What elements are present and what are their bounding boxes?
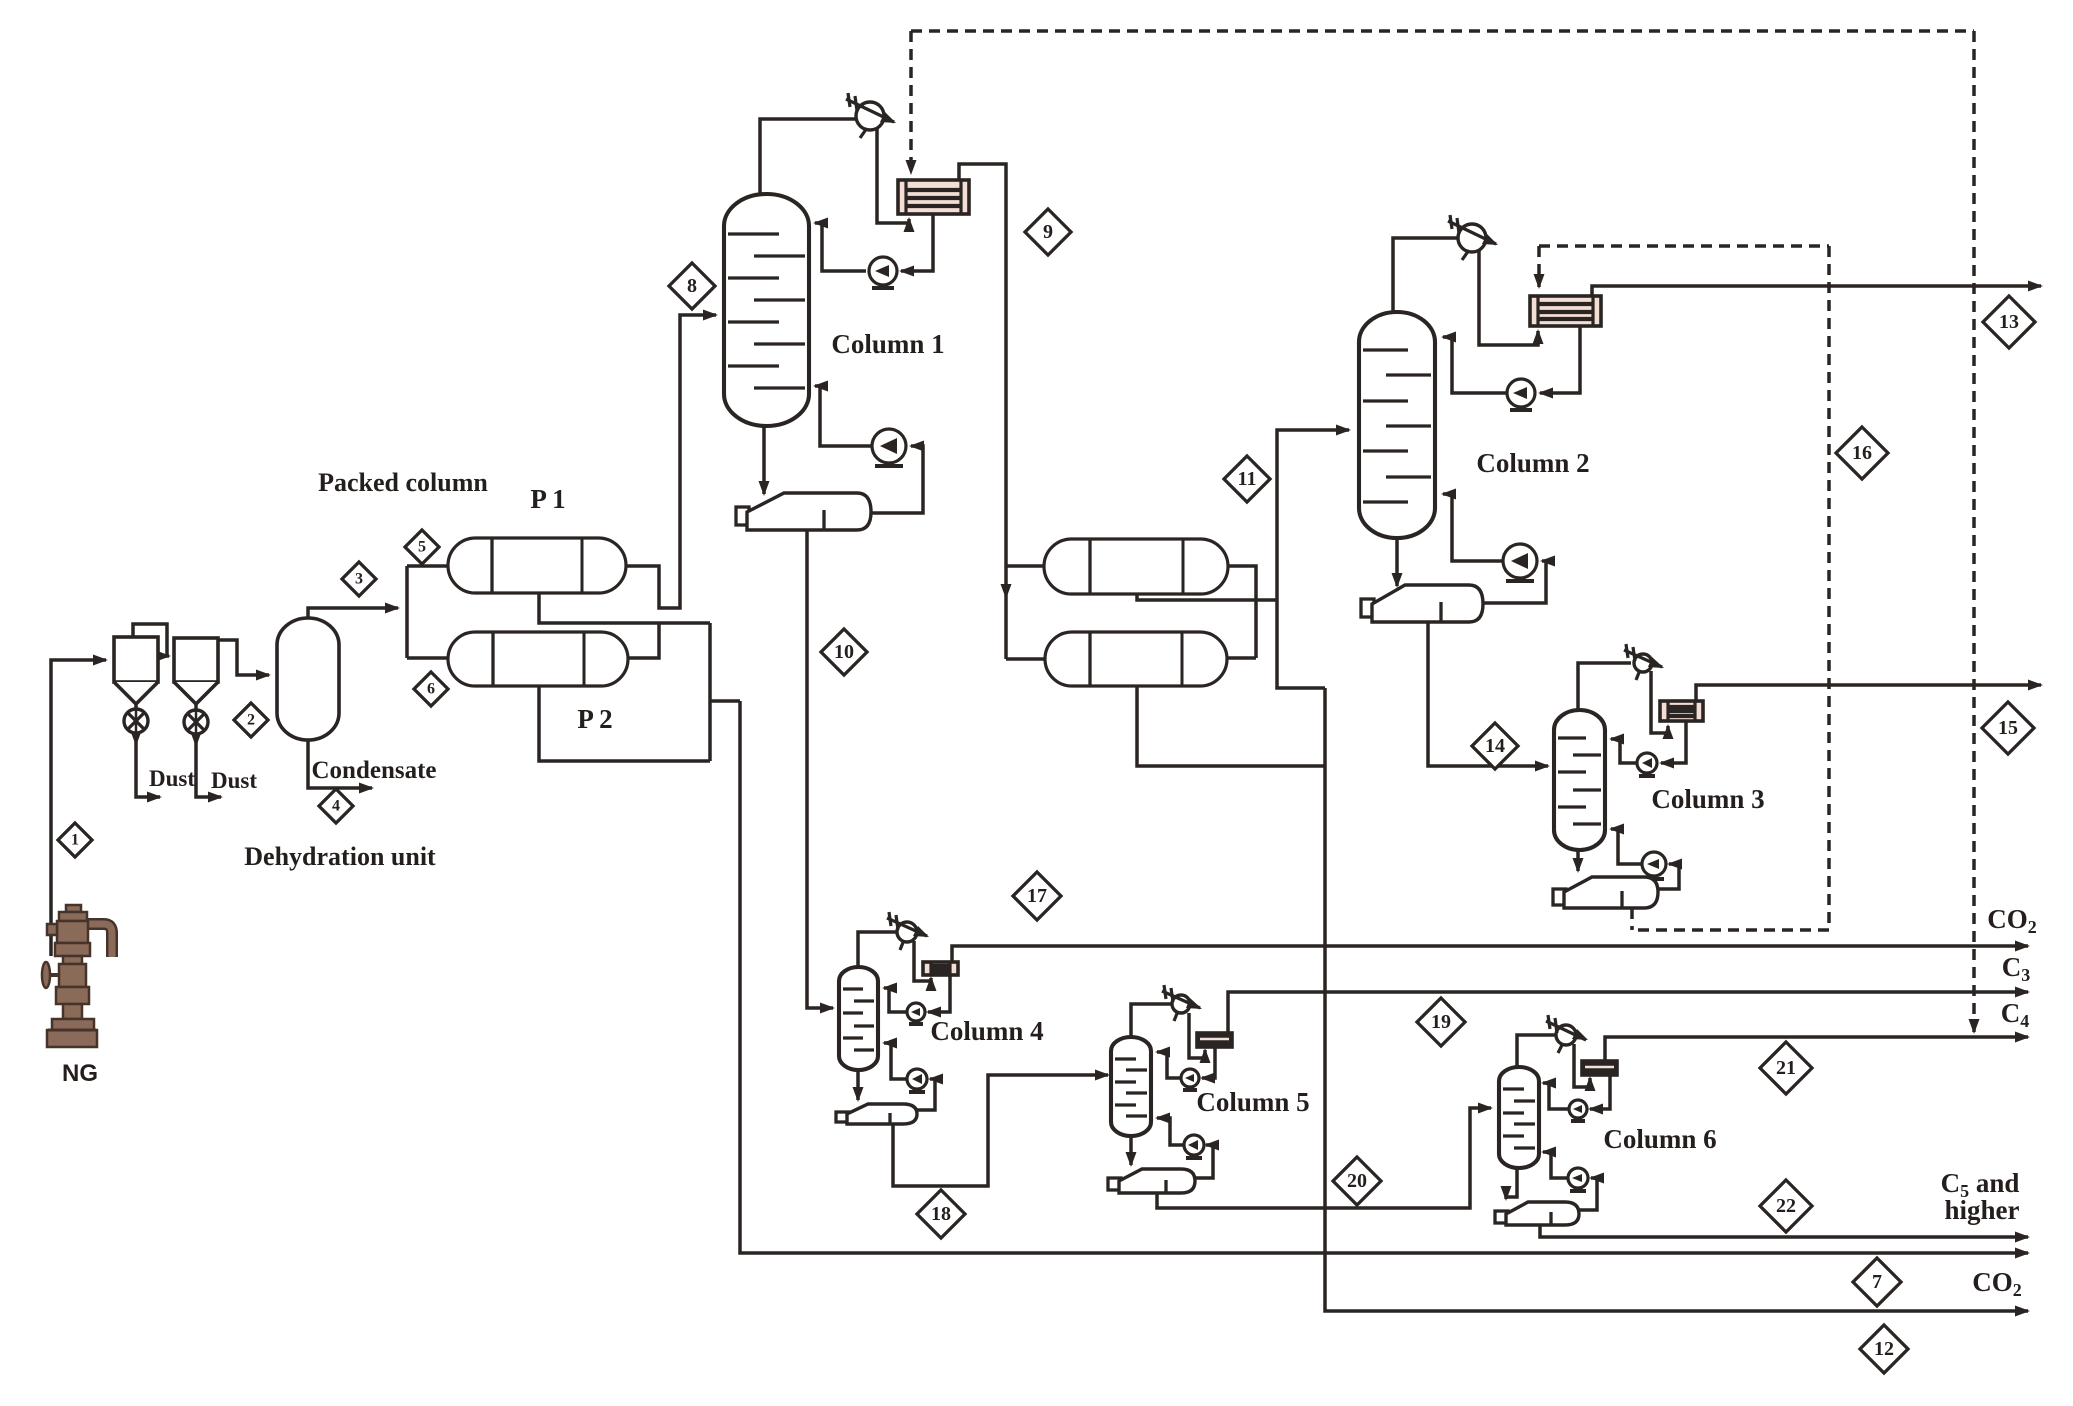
wire stream 22 C5 line [1540, 1225, 2030, 1243]
svg-text:Packed column: Packed column [318, 468, 488, 497]
wire column4 overhead to cooler [858, 932, 897, 967]
node stream 12 label [1860, 1325, 1908, 1373]
wire stream 19 C3 line [1228, 987, 2030, 1034]
wire stream 18 to column5 [893, 1070, 1110, 1187]
wire stream 14 to column3 [1428, 622, 1550, 772]
wire reboiler5 return to column [1155, 1113, 1184, 1146]
wire condenser1 liquid to reflux pump [899, 214, 933, 277]
wire E4 inlet [1006, 657, 1045, 661]
node stream 15 label [1982, 702, 2034, 754]
reboiler column3 [1553, 877, 1658, 908]
air cooler column4 [887, 912, 929, 950]
heat exchanger E4 [1045, 632, 1227, 686]
svg-text:5: 5 [418, 539, 426, 556]
svg-text:NG: NG [62, 1060, 98, 1087]
reboiler pump column5 [1184, 1135, 1204, 1158]
wire P2 inlet [407, 656, 448, 660]
wire cooler1 outlet to condenser [877, 129, 915, 232]
column Column 5 vessel [1111, 1037, 1151, 1136]
dust cyclone 1 [114, 637, 158, 704]
wire condenser1 refrigerant dashed [906, 31, 917, 175]
wire cyclone1 to cyclone2 crossover [133, 624, 171, 662]
wire stream 21 C4 line [1605, 1032, 2030, 1062]
air cooler column6 [1546, 1015, 1588, 1053]
node stream 13 label [1983, 296, 2035, 348]
wire P2 outlet riser [626, 623, 659, 658]
dust valve 1 [124, 709, 148, 733]
dust cyclone 2 [174, 638, 218, 704]
svg-text:22: 22 [1776, 1195, 1796, 1217]
node stream 7 label [1853, 1258, 1901, 1306]
wire stream 11 riser to column2 [1277, 425, 1351, 601]
node stream 21 label [1760, 1042, 1812, 1094]
svg-text:Dust: Dust [211, 768, 257, 793]
svg-text:19: 19 [1431, 1011, 1451, 1033]
svg-text:Column 2: Column 2 [1476, 448, 1589, 478]
wire P1 outlet to column1 riser [626, 310, 718, 609]
reflux pump column4 [907, 1003, 925, 1024]
svg-text:P 1: P 1 [530, 484, 565, 514]
svg-text:Dehydration unit: Dehydration unit [244, 842, 436, 871]
wire condenser2 refrigerant dashed [1534, 246, 1545, 289]
wire E3 inlet [1006, 564, 1044, 568]
reflux pump column3 [1637, 753, 1657, 776]
wire cyclone1 valve stem [134, 704, 138, 710]
node stream 6 label [414, 672, 448, 706]
node stream 22 label [1760, 1180, 1812, 1232]
wire condenser6 liquid to pump [1588, 1075, 1610, 1115]
condenser column1 [898, 180, 969, 214]
wire E4 outlet [1227, 656, 1256, 660]
reboiler column2 [1361, 585, 1483, 622]
wire condenser4 liquid to pump [926, 975, 950, 1018]
wire stream 12 upper drop [1277, 600, 1325, 688]
wire E4 shell drain [1137, 686, 1325, 766]
condenser column3 [1660, 701, 1703, 721]
svg-text:7: 7 [1872, 1271, 1882, 1293]
svg-text:18: 18 [931, 1203, 951, 1225]
air cooler column3 [1624, 644, 1664, 680]
column Column 4 vessel [839, 967, 878, 1070]
svg-text:16: 16 [1852, 442, 1872, 464]
wire dashed refrigerant header [911, 29, 1974, 33]
wire condenser2 liquid to pump [1538, 326, 1580, 399]
reboiler pump column2 [1503, 544, 1537, 581]
svg-text:4: 4 [332, 798, 340, 815]
wire reboiler2 vapor to pump [1483, 556, 1555, 604]
wire column1 bottoms to reboiler [759, 426, 770, 496]
wire column3 overhead to cooler [1578, 663, 1631, 710]
wire reboiler3 vapor to pump [1658, 859, 1682, 890]
svg-text:21: 21 [1776, 1057, 1796, 1079]
wire NG riser to cyclone 1 inlet [51, 655, 108, 957]
node stream 19 label [1417, 998, 1465, 1046]
wire stream 7 drop [740, 701, 2030, 1259]
svg-text:1: 1 [71, 832, 79, 849]
heat exchanger E3 [1044, 539, 1228, 594]
reboiler column1 [736, 493, 871, 530]
svg-text:3: 3 [355, 571, 363, 588]
reflux pump column6 [1569, 1100, 1587, 1121]
air cooler column1 [846, 93, 896, 138]
svg-text:Column 3: Column 3 [1651, 784, 1764, 814]
svg-text:12: 12 [1874, 1338, 1894, 1360]
wire column5 overhead to cooler [1131, 1004, 1172, 1037]
wire reboiler3 return to column [1609, 824, 1641, 865]
column Column 2 vessel [1359, 312, 1435, 538]
wire cyclone2 valve stem [194, 704, 198, 711]
wire stream 15 line [1696, 680, 2043, 702]
svg-text:Column 5: Column 5 [1196, 1087, 1309, 1117]
wire column6 overhead to cooler [1517, 1035, 1556, 1067]
wire condenser3 liquid to pump [1659, 721, 1686, 769]
wire reflux3 into column [1609, 734, 1637, 764]
reflux pump column2 [1507, 379, 1535, 410]
wire reboiler4 vapor to pump [917, 1074, 943, 1111]
reboiler column4 [836, 1104, 917, 1124]
wire reboiler1 vapor to pump [871, 441, 924, 514]
svg-text:20: 20 [1347, 1170, 1367, 1192]
wire cyclone1 dust drop [131, 731, 142, 746]
wire reboiler6 vapor to pump [1579, 1173, 1604, 1211]
wire split header P1/P2 [405, 566, 409, 658]
wire column6 bottoms to reboiler [1501, 1168, 1518, 1201]
wire dashed 16 from reboiler3 [1630, 908, 1634, 930]
wire reboiler6 return to column [1541, 1147, 1568, 1179]
svg-text:9: 9 [1043, 221, 1053, 243]
wire stream 10 drop to column4 [807, 530, 835, 1014]
svg-text:Column 6: Column 6 [1603, 1124, 1716, 1154]
wire column4 bottoms to reboiler [853, 1070, 864, 1102]
reboiler pump column3 [1642, 852, 1666, 879]
svg-text:2: 2 [247, 712, 255, 729]
wire cyclone2 outlet to dehydrator [218, 640, 271, 681]
wire P1 shell drain crosslink [539, 593, 710, 623]
wire reboiler2 return to column [1441, 489, 1503, 562]
heat exchanger P1 [448, 538, 626, 593]
wire reboiler1 return to column [813, 381, 872, 447]
wire cooler2 outlet to condenser [1479, 249, 1544, 345]
wire cyclone2 dust elbow [196, 745, 223, 803]
wire cooler5 outlet to condenser [1189, 1013, 1211, 1063]
wire condenser5 liquid to pump [1200, 1047, 1215, 1084]
reboiler column5 [1108, 1169, 1195, 1193]
wire reflux1 into column [813, 218, 866, 272]
reboiler pump column1 [872, 429, 906, 466]
wire stream 13 line [1592, 281, 2043, 297]
wire reflux4 into column [882, 983, 907, 1013]
node stream 18 label [917, 1190, 965, 1238]
air cooler column2 [1448, 215, 1498, 260]
heat exchanger P2 [448, 632, 628, 686]
node stream 10 label [821, 629, 867, 675]
node stream 17 label [1013, 872, 1061, 920]
node stream 4 label [319, 789, 353, 823]
svg-text:P 2: P 2 [577, 704, 612, 734]
svg-text:15: 15 [1998, 717, 2018, 739]
condenser column4 [923, 962, 958, 975]
wire column1 overhead to cooler [760, 119, 857, 194]
column Column 1 vessel [724, 194, 809, 426]
svg-text:Dust: Dust [149, 766, 195, 791]
svg-text:8: 8 [687, 275, 697, 297]
wire reboiler4 return to column [882, 1038, 907, 1080]
svg-text:Column 4: Column 4 [930, 1016, 1043, 1046]
wire column2 overhead to cooler [1393, 238, 1459, 312]
wire E3 shell drain crosslink [1137, 594, 1277, 600]
svg-text:13: 13 [1999, 311, 2019, 333]
wire stream 9 tail [1004, 597, 1008, 659]
wire reflux5 into column [1155, 1047, 1181, 1079]
wire cooler3 outlet to condenser [1651, 671, 1674, 739]
wire reflux6 into column [1541, 1078, 1568, 1110]
node stream 2 label [234, 703, 268, 737]
wire reflux2 into column [1441, 332, 1507, 394]
wire stream 17 CO2 line [952, 941, 2030, 963]
wellhead NG (christmas tree) [42, 905, 112, 1047]
condenser column2 [1530, 296, 1601, 326]
wire stream 12 long drop [1325, 688, 2030, 1317]
column Column 3 vessel [1554, 710, 1605, 850]
svg-text:6: 6 [427, 681, 435, 698]
reboiler pump column6 [1568, 1168, 1588, 1191]
reflux pump column1 [869, 257, 897, 288]
wire condenser1 vapor to stream 9 [959, 164, 1012, 599]
wire P1 inlet [407, 564, 448, 568]
wire stream 20 to column6 [1157, 1103, 1493, 1209]
reflux pump column5 [1181, 1069, 1199, 1090]
wire dehydrator overhead to split [308, 603, 400, 619]
wire E3 outlet link [1228, 566, 1256, 658]
node stream 14 label [1472, 723, 1518, 769]
svg-text:11: 11 [1238, 468, 1257, 490]
node stream 8 label [669, 263, 715, 309]
node stream 11 label [1224, 456, 1270, 502]
node stream 9 label [1025, 209, 1071, 255]
dust valve 2 [184, 710, 208, 734]
svg-text:17: 17 [1027, 885, 1047, 907]
condenser column5 [1197, 1033, 1232, 1047]
air cooler column5 [1162, 985, 1202, 1021]
wire reboiler5 vapor to pump [1195, 1140, 1219, 1179]
wire cooler6 outlet to condenser [1574, 1044, 1596, 1091]
wire dashed refrigerant drop right [1969, 31, 1980, 1034]
node stream 1 label [58, 823, 92, 857]
node stream 3 label [342, 562, 376, 596]
wire P2 crosslink drop [708, 623, 712, 761]
svg-text:10: 10 [834, 641, 854, 663]
wire column3 bottoms to reboiler [1573, 850, 1584, 873]
wire dehydrator condensate line [308, 740, 374, 794]
svg-text:higher: higher [1944, 1195, 2019, 1225]
wire stream 7 jog [710, 699, 740, 703]
reboiler pump column4 [907, 1069, 927, 1092]
column Column 6 vessel [1499, 1067, 1539, 1168]
svg-text:14: 14 [1485, 735, 1505, 757]
wire column5 bottoms to reboiler [1126, 1136, 1137, 1167]
node stream 16 label [1836, 427, 1888, 479]
wire cooler4 outlet to condenser [914, 941, 937, 991]
node stream 5 label [405, 530, 439, 564]
reboiler column6 [1495, 1202, 1579, 1225]
svg-text:Condensate: Condensate [311, 757, 436, 784]
svg-text:Column 1: Column 1 [831, 329, 944, 359]
wire cyclone1 dust elbow [136, 744, 162, 803]
wire column2 bottoms to reboiler [1392, 538, 1403, 588]
node stream 20 label [1333, 1157, 1381, 1205]
wire dashed 16 right drop [1632, 246, 1829, 930]
wire cyclone2 dust drop [191, 732, 202, 747]
wire P2 shell drain [539, 685, 710, 761]
dehydration vessel [277, 618, 339, 740]
wire dashed 16 header [1539, 244, 1829, 248]
condenser column6 [1582, 1061, 1617, 1075]
